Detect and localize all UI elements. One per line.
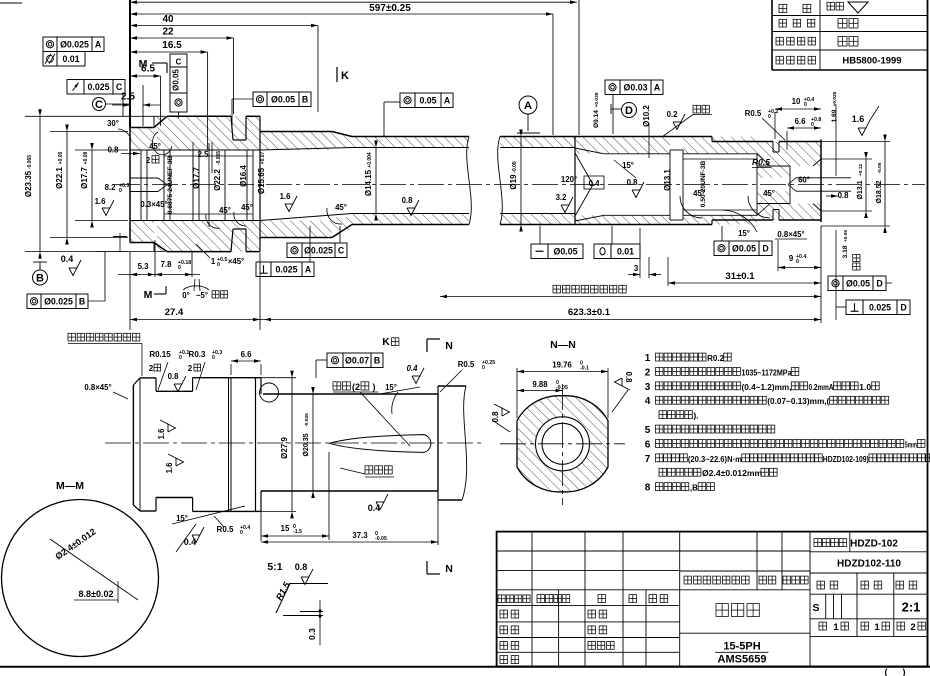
K view centerline <box>105 442 485 444</box>
svg-text:0: 0 <box>217 262 220 268</box>
svg-text:+0.05: +0.05 <box>58 151 64 164</box>
svg-text:Ø15.65: Ø15.65 <box>257 167 266 194</box>
svg-text:N: N <box>445 563 453 575</box>
svg-text:45°: 45° <box>241 203 253 212</box>
end relief groove R0.5 <box>772 142 774 153</box>
svg-text:8: 8 <box>645 483 651 494</box>
dim dia 13.1 right end <box>821 158 872 160</box>
svg-text:HDZD-102: HDZD-102 <box>850 539 898 550</box>
svg-text:R0.5: R0.5 <box>752 157 770 167</box>
svg-text:10: 10 <box>792 97 801 106</box>
svg-text:0: 0 <box>240 530 243 536</box>
tube inner lines <box>352 147 469 149</box>
svg-text:B: B <box>36 273 44 285</box>
svg-text:9.88: 9.88 <box>532 380 548 389</box>
datum C circle <box>93 98 106 111</box>
dim 22 <box>130 37 234 39</box>
finish 0.8 left of N-N rotated <box>491 404 510 422</box>
label 0.4 finish bottom K <box>376 494 388 510</box>
svg-text:0: 0 <box>119 188 122 194</box>
dim dia 20.35 <box>312 394 314 491</box>
drawing sheet bottom border <box>0 666 930 668</box>
svg-text:0.3: 0.3 <box>307 628 317 640</box>
hatch left flange bottom <box>157 221 260 252</box>
svg-text:0.05: 0.05 <box>419 95 436 105</box>
svg-text:3: 3 <box>645 382 651 393</box>
label 1.6 finish right end <box>858 120 870 136</box>
svg-text:1: 1 <box>833 622 839 633</box>
svg-text:45°: 45° <box>149 142 161 151</box>
svg-text:1.6: 1.6 <box>95 197 107 206</box>
dim 15 0/-1.5 <box>260 511 262 541</box>
svg-text:(2: (2 <box>352 382 360 392</box>
info row: jia gong (machining) <box>779 4 787 12</box>
M-M section circle <box>2 500 159 657</box>
gdt frame 0.05 A mid <box>400 93 415 108</box>
svg-text:HDZD102-110: HDZD102-110 <box>837 559 901 570</box>
label 1.6 finish lower-left <box>102 200 114 216</box>
notes item 4 cont <box>659 411 667 419</box>
15 deg taper to bore <box>575 148 604 154</box>
svg-text:K: K <box>341 70 349 82</box>
svg-text:2.5: 2.5 <box>198 150 210 159</box>
flange relief groove <box>231 116 233 140</box>
svg-text:6.5: 6.5 <box>141 64 155 75</box>
svg-text:K: K <box>382 336 390 348</box>
hatch end cap top <box>757 142 821 167</box>
svg-text:Ø22.1: Ø22.1 <box>55 167 64 189</box>
K shaft segment 3 <box>193 377 256 379</box>
svg-text:60°: 60° <box>798 176 810 185</box>
svg-text:~5°: ~5° <box>196 291 208 300</box>
svg-text:Ø0.05: Ø0.05 <box>271 94 295 104</box>
svg-text:1.6: 1.6 <box>157 428 166 440</box>
hatch left pilot top <box>130 128 154 151</box>
svg-text:Ø0.05: Ø0.05 <box>846 278 870 288</box>
title middle zone grid <box>680 550 810 552</box>
svg-text:1: 1 <box>645 353 651 364</box>
svg-text:1.69: 1.69 <box>831 109 838 122</box>
svg-text:3: 3 <box>634 264 639 273</box>
svg-text:15°: 15° <box>622 161 634 170</box>
label 0.4 box <box>584 176 604 189</box>
hatch taper top <box>332 134 352 147</box>
headers: biao ji / zhi liang / bi li <box>817 581 825 589</box>
svg-text:1.6: 1.6 <box>852 114 865 124</box>
thread relief groove <box>669 150 671 220</box>
svg-text:0: 0 <box>804 102 807 108</box>
label ke hao chu (marking position) <box>365 466 373 474</box>
dim dia 14.15 tube bore <box>375 148 377 214</box>
svg-text:1035~1172MPa: 1035~1172MPa <box>742 367 792 377</box>
svg-text:40: 40 <box>162 14 174 25</box>
svg-text:30°: 30° <box>107 119 119 128</box>
svg-text:0.4: 0.4 <box>184 537 197 547</box>
title block left revision zone grid <box>497 550 680 552</box>
page info: gong 1 ye / di 1 ye / di 2 ban <box>819 622 827 630</box>
svg-text:Ø0.05: Ø0.05 <box>554 246 578 256</box>
N-N outer circle with flats <box>517 421 523 468</box>
svg-text:R0.15: R0.15 <box>149 350 171 359</box>
center well 8.2 deep <box>130 177 158 179</box>
info row: yi ban gong cha = HB5800-1999 (general tolerance) <box>776 56 783 64</box>
dim dia 17.7 thread <box>75 149 128 151</box>
svg-text:,B: ,B <box>690 483 698 493</box>
main bore lines left section <box>130 149 260 151</box>
signature rows: she ji / jiao dui / shen he / gong yi <box>500 610 508 618</box>
center hole and 60 deg cone <box>788 178 796 185</box>
hatch left flange top <box>157 116 260 150</box>
svg-text:+0.08: +0.08 <box>83 151 89 164</box>
svg-text:0.8×45°: 0.8×45° <box>777 230 804 239</box>
gdt frame concentricity 0.025 B bottom-left <box>27 294 41 309</box>
dim 37.3 <box>437 500 439 545</box>
left reference extension line x130 <box>129 0 131 128</box>
hatch tube top <box>352 137 469 148</box>
svg-text:C: C <box>338 245 345 255</box>
svg-text:0.8: 0.8 <box>295 562 308 572</box>
counterbore step <box>757 165 790 167</box>
svg-text:3.2: 3.2 <box>556 193 568 202</box>
right inner face <box>574 137 576 225</box>
gdt frame concentricity 0.025 C below shaft <box>287 243 302 258</box>
svg-text:0°: 0° <box>182 291 189 300</box>
detail groove slant R1.5 <box>276 584 290 614</box>
svg-text:C: C <box>116 82 123 92</box>
gdt frame perpendicular 0.025 A below shaft <box>256 262 271 277</box>
detail surface line <box>289 583 328 585</box>
svg-text:).: ). <box>693 411 698 421</box>
svg-text:B: B <box>302 94 308 104</box>
hatch right section bottom <box>575 215 670 224</box>
svg-text:Ø0.025: Ø0.025 <box>60 39 89 49</box>
svg-text:0.8: 0.8 <box>168 372 180 381</box>
svg-text:0.8: 0.8 <box>402 196 414 205</box>
bore transition to tube inner <box>260 148 352 151</box>
svg-text:Ø20.35: Ø20.35 <box>303 433 310 456</box>
svg-text:2: 2 <box>149 364 154 373</box>
svg-text:15-5PH: 15-5PH <box>723 641 760 653</box>
notes item 7 cont <box>659 468 667 476</box>
svg-text:0.4: 0.4 <box>589 179 601 188</box>
gdt frame 0.03 A right <box>605 80 620 95</box>
internal thread 0.50-20UNF <box>683 153 757 155</box>
flange right face <box>259 116 261 251</box>
dim 6.5 <box>130 75 161 77</box>
N-N hatched ring <box>517 396 608 492</box>
datum B flag and 0.4 finish <box>119 233 121 252</box>
svg-text:Ø0.03: Ø0.03 <box>624 82 648 92</box>
svg-text:(20.3~22.6)N·m: (20.3~22.6)N·m <box>688 454 742 464</box>
svg-text:B: B <box>79 296 85 306</box>
svg-text:-1.5: -1.5 <box>293 529 302 535</box>
svg-text:22: 22 <box>162 27 174 38</box>
svg-text:16.5: 16.5 <box>162 40 182 51</box>
detail finish 0.8 <box>301 569 313 585</box>
svg-text:-0.1: -0.1 <box>580 366 589 372</box>
svg-text:0.01: 0.01 <box>62 54 79 64</box>
N-N bore circles <box>536 417 590 471</box>
120 deg cone <box>575 153 593 185</box>
svg-text:S: S <box>812 602 819 614</box>
svg-text:D: D <box>900 302 906 312</box>
svg-text:+0.025: +0.025 <box>832 91 838 106</box>
svg-text:R0.5: R0.5 <box>458 360 475 369</box>
svg-text:15: 15 <box>281 524 290 533</box>
svg-text:A: A <box>444 95 451 105</box>
30 deg chamfer at flange <box>154 116 167 127</box>
svg-text:0.2: 0.2 <box>667 110 679 119</box>
svg-text:HDZD102-109): HDZD102-109) <box>823 454 869 464</box>
svg-text:0.3×45°: 0.3×45° <box>140 200 167 209</box>
svg-text:19.76: 19.76 <box>552 361 572 370</box>
main flange outline <box>167 115 231 117</box>
svg-text:597±0.25: 597±0.25 <box>369 3 411 14</box>
svg-text:-0.025: -0.025 <box>304 413 310 427</box>
hatch left pilot bottom <box>130 221 154 243</box>
svg-text:M—M: M—M <box>56 480 84 492</box>
detail lower lines and 0.3 dim <box>300 611 323 613</box>
svg-text:0.8: 0.8 <box>108 146 120 155</box>
svg-text:Ø17.7: Ø17.7 <box>192 167 201 189</box>
svg-text:4: 4 <box>645 396 651 407</box>
title right zone grid <box>810 551 928 553</box>
svg-text:Ø19: Ø19 <box>509 174 518 190</box>
svg-text:×45°: ×45° <box>228 257 244 266</box>
tube outer lines after break <box>500 136 712 138</box>
svg-text:Ø0.05: Ø0.05 <box>172 69 181 91</box>
svg-text:M: M <box>144 289 153 301</box>
svg-text:Ø18.52: Ø18.52 <box>876 180 883 203</box>
svg-text:Ø0.07: Ø0.07 <box>345 355 369 365</box>
svg-text:-0.05: -0.05 <box>512 161 518 173</box>
svg-text:5mm: 5mm <box>905 439 917 449</box>
tube outer lines to break <box>352 136 469 138</box>
svg-text:0: 0 <box>179 355 182 361</box>
label ping mian 2 places (flat x2) <box>333 382 341 390</box>
hatch tube2 bottom <box>500 214 575 225</box>
drawing sheet right border <box>927 0 929 667</box>
section N marks <box>426 339 428 352</box>
part name: huo sai gan (piston rod) <box>716 604 728 617</box>
svg-text:-0.05: -0.05 <box>556 385 568 391</box>
hatch neck 22.2 bottom <box>260 221 332 238</box>
svg-text:0: 0 <box>796 259 799 265</box>
svg-text:Ø14.15: Ø14.15 <box>364 169 373 196</box>
svg-text:0.2mmA: 0.2mmA <box>809 382 834 392</box>
info row: biao mian chu li = jian zhu (surface treat) <box>776 37 783 45</box>
hatch end cap bottom <box>757 204 821 221</box>
gdt frame concentricity 0.025 A <box>43 37 57 52</box>
svg-text:0.01: 0.01 <box>617 246 634 256</box>
svg-text:0.8: 0.8 <box>627 178 639 187</box>
main view centerline <box>114 184 925 186</box>
K shaft neck segment 2 <box>156 390 193 392</box>
svg-text:7: 7 <box>645 454 651 465</box>
dim top unlabeled overall line <box>130 1 577 3</box>
svg-text:0.4: 0.4 <box>61 254 74 264</box>
detail balloon circle at relief groove <box>260 383 279 402</box>
svg-text:Ø0.05: Ø0.05 <box>732 243 756 253</box>
datum D circle <box>610 104 612 114</box>
svg-text:8.8±0.02: 8.8±0.02 <box>79 589 114 599</box>
step to end diameter 18.52 <box>711 137 713 142</box>
label 0.8 finish tube <box>407 200 419 216</box>
svg-text:2:1: 2:1 <box>902 600 921 615</box>
header: suo shu zhuang pei tu tu hao / shu liang / zong shu liang <box>684 576 692 584</box>
dim 597 +-0.25 <box>130 13 553 15</box>
dim 5.3 <box>118 274 200 276</box>
svg-text:N—N: N—N <box>550 339 576 351</box>
svg-text:0.025: 0.025 <box>869 302 891 312</box>
svg-text:AMS5659: AMS5659 <box>718 654 767 666</box>
bore 13.1 lines <box>604 153 670 155</box>
label pao guang (polish) underlined <box>693 105 700 113</box>
svg-text:(: ( <box>885 667 888 676</box>
svg-text:0.4: 0.4 <box>368 503 381 513</box>
svg-text:D: D <box>876 278 882 288</box>
svg-text:A: A <box>95 39 102 49</box>
svg-text:1: 1 <box>211 257 216 266</box>
svg-text:Ø9.14: Ø9.14 <box>593 110 600 128</box>
svg-text:45°: 45° <box>763 189 775 198</box>
svg-text:8.2: 8.2 <box>105 183 117 192</box>
svg-text:0.8×45°: 0.8×45° <box>84 383 111 392</box>
svg-text:0.8: 0.8 <box>838 191 850 200</box>
cross hole axis line in M-M <box>50 539 138 600</box>
svg-text:-0.065: -0.065 <box>27 155 33 169</box>
left flange internal thread bores <box>140 150 142 221</box>
svg-text:45°: 45° <box>335 203 347 212</box>
dim 6.6 groove <box>231 360 261 362</box>
svg-text:A: A <box>524 100 532 112</box>
svg-text:-0.05: -0.05 <box>375 536 387 542</box>
svg-text:Ø2.4±0.012mm: Ø2.4±0.012mm <box>702 468 762 478</box>
hatch right section top <box>575 137 670 154</box>
K shaft main segment with flat <box>263 393 438 395</box>
approval labels: biao shen / pi zhun / jun dai biao <box>588 610 596 618</box>
svg-text:1: 1 <box>874 622 880 633</box>
svg-text:0.8: 0.8 <box>624 372 633 384</box>
svg-text:Ø16.4: Ø16.4 <box>239 165 248 187</box>
info table frame <box>771 0 773 70</box>
svg-text:0.50-20UNF-3B: 0.50-20UNF-3B <box>700 160 707 207</box>
gdt frame perpendicularity 0.025 D <box>846 300 863 315</box>
svg-text:2: 2 <box>146 156 151 165</box>
svg-text:Ø10.2: Ø10.2 <box>642 105 651 127</box>
top-left crop stub line <box>0 2 22 4</box>
label 0.8 finish cone <box>632 182 644 198</box>
hatch tube2 top <box>500 137 575 148</box>
K shaft right stub and break <box>437 386 439 394</box>
dim 6.6 +0.8 end <box>787 127 821 129</box>
svg-text:1.0: 1.0 <box>859 382 871 392</box>
svg-text:0.025: 0.025 <box>275 264 297 274</box>
svg-text:6: 6 <box>645 439 651 450</box>
dim dia 18.52 right end <box>821 141 890 143</box>
surface note pointing at K view left <box>68 333 75 341</box>
svg-text:A: A <box>654 82 661 92</box>
svg-text:5.3: 5.3 <box>138 262 150 271</box>
dim 19.76 across flats <box>516 368 518 418</box>
svg-text:0: 0 <box>811 122 814 128</box>
svg-text:+0.039: +0.039 <box>594 92 600 107</box>
svg-text:R0.2: R0.2 <box>707 353 724 363</box>
svg-text:0.6875-24UNEF-3B: 0.6875-24UNEF-3B <box>167 156 174 215</box>
title block outer frame <box>497 532 928 667</box>
svg-text:N: N <box>445 340 453 352</box>
svg-text:7.8: 7.8 <box>161 260 173 269</box>
hatch neck 22.2 top <box>260 132 332 151</box>
svg-text:0.025: 0.025 <box>87 82 109 92</box>
dim 10 +0.4 end <box>775 108 821 110</box>
gdt frame cylindricity 0.01 <box>43 52 57 67</box>
svg-text:R0.5: R0.5 <box>745 109 762 118</box>
dim 2.5 outside arrows <box>112 104 130 106</box>
hatch thread walls top <box>683 137 757 154</box>
svg-text:+0.07: +0.07 <box>260 151 266 164</box>
datum A circle with target line <box>519 96 537 114</box>
flange bottom extension left <box>95 251 165 253</box>
main shaft left pilot step outline <box>129 128 131 243</box>
svg-text:(0.4~1.2)mm,: (0.4~1.2)mm, <box>742 382 792 392</box>
dim dia 22.1 <box>50 131 128 133</box>
label 1.6 finish at taper <box>285 196 297 212</box>
svg-text:+0.004: +0.004 <box>367 152 373 168</box>
svg-text:9: 9 <box>789 254 794 263</box>
svg-text:(0.07~0.13)mm,(: (0.07~0.13)mm,( <box>767 396 829 406</box>
svg-text:15°: 15° <box>385 383 397 392</box>
surface note: shot peen + hard chrome over tube <box>553 285 560 293</box>
right end face <box>820 140 822 223</box>
svg-text:+0.05: +0.05 <box>843 230 849 242</box>
svg-text:623.3±0.1: 623.3±0.1 <box>568 307 611 318</box>
svg-text:45°: 45° <box>693 189 705 198</box>
svg-text:5: 5 <box>645 425 651 436</box>
svg-text:27.4: 27.4 <box>165 307 184 318</box>
info row: re chu li = jian zhu (heat treat: see notes) <box>779 19 786 27</box>
svg-text:B: B <box>374 355 380 365</box>
svg-text:0.4: 0.4 <box>407 364 419 373</box>
taper to tube <box>332 132 352 137</box>
diameter 22.2 section outline <box>260 131 332 133</box>
svg-text:HB5800-1999: HB5800-1999 <box>842 56 901 67</box>
milled flat pocket <box>330 435 431 453</box>
svg-text:6.6: 6.6 <box>241 350 253 359</box>
svg-text:Ø23.35: Ø23.35 <box>24 170 33 197</box>
N-N centerlines <box>500 443 625 445</box>
svg-text:3.18: 3.18 <box>842 245 849 258</box>
svg-text:Ø0.025: Ø0.025 <box>44 296 73 306</box>
svg-text:0: 0 <box>768 114 771 120</box>
dim 9.88 half <box>517 390 563 392</box>
dim dia 19 tube <box>520 137 522 225</box>
dim 40 <box>130 25 318 27</box>
svg-text:+0.12: +0.12 <box>858 164 864 176</box>
gdt frame 0.07 B on K view <box>327 353 343 368</box>
svg-text:2: 2 <box>910 622 915 633</box>
end hole with 45 chamfer <box>789 166 791 204</box>
svg-text:5:1: 5:1 <box>267 561 282 573</box>
svg-text:0: 0 <box>482 365 485 371</box>
svg-text:D: D <box>762 243 768 253</box>
finish 0.8 right of N-N rotated <box>615 372 634 390</box>
gdt frame concentricity 0.05 D right low <box>828 276 843 291</box>
revision header: geng gai biao ji / dan hao / xing ming / ri qi <box>498 595 505 603</box>
hatch end cap mid-left <box>757 166 790 178</box>
svg-text:Ø0.025: Ø0.025 <box>304 245 333 255</box>
label 0.2 finish polish <box>673 114 685 130</box>
